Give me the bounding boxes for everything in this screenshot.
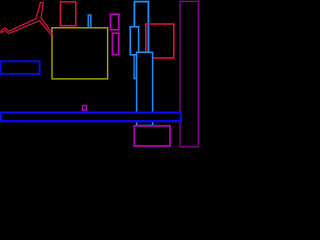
component C2 (narrow dodger-blue rectangle tall)	[134, 40, 136, 79]
component M2 (magenta rectangle lower)	[112, 33, 118, 55]
component P1 (purple rectangle right edge)	[180, 1, 198, 146]
component A1 (dodger-blue rectangle tall top)	[134, 2, 148, 53]
component R2 (crimson rectangle top-left)	[60, 2, 75, 26]
component C1 (dodger-blue rectangle mid)	[130, 27, 138, 55]
component M1 (magenta rectangle upper)	[111, 14, 119, 30]
component M3 (small magenta rectangle)	[83, 106, 87, 111]
wire W1 (crimson sliver polygon)	[1, 2, 52, 35]
component M4 (magenta rectangle bottom)	[134, 126, 170, 146]
component D1 (dodger-blue rectangle tall mid)	[137, 52, 153, 125]
component B2 (small dodger-blue rectangle)	[88, 15, 91, 27]
component E1 (crimson rectangle right)	[146, 24, 174, 58]
component R1 (olive rectangle)	[52, 28, 108, 79]
component BAR (blue horizontal bar)	[1, 113, 181, 122]
component B1 (blue rectangle bottom-left)	[1, 61, 40, 74]
